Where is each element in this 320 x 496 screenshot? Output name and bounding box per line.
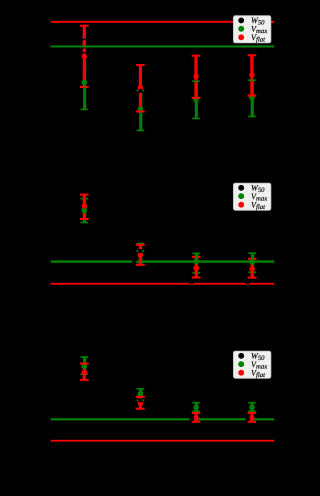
panel3 green marker 4 bbox=[249, 405, 255, 411]
panel3 red top cap over green 1 bbox=[80, 363, 89, 365]
panel1 green top cap over bar 2 bbox=[137, 90, 145, 92]
panel2 red marker 3 bbox=[194, 266, 199, 271]
panel3 green marker 1 bbox=[81, 363, 87, 369]
panel1 red marker 3 bbox=[193, 74, 198, 79]
panel2 black W50 marker 2 bbox=[138, 249, 142, 253]
panel2 green errorbar 4 bbox=[248, 252, 256, 273]
panel1 red bottom cap over green 3 bbox=[192, 97, 201, 99]
panel1 green marker 4 bbox=[249, 95, 255, 101]
panel2 green errorbar 2 bbox=[137, 243, 145, 264]
panel3 red marker 2 bbox=[138, 401, 143, 406]
panel1 red marker 2 bbox=[138, 85, 143, 90]
panel2 green marker 4 bbox=[249, 259, 255, 265]
panel3 black W50 marker 1 bbox=[138, 398, 142, 402]
panel3 black W50 marker 3 bbox=[245, 416, 250, 421]
panel2 green marker 1 bbox=[81, 207, 87, 213]
panel2 red errorbar 2 bbox=[136, 244, 145, 266]
panel3 red errorbar 2 bbox=[136, 396, 145, 410]
panel1 green marker 1 bbox=[81, 80, 87, 86]
panel3 green errorbar 4 bbox=[248, 402, 256, 412]
panel2 black W50 marker 4 bbox=[245, 279, 250, 284]
legend panel1 bbox=[233, 16, 271, 44]
panel1 green marker 2 bbox=[138, 107, 144, 113]
panel2 green bar over red cap 1 bbox=[195, 256, 198, 259]
panel3 red marker 3 bbox=[193, 415, 198, 420]
panel1 red errorbar 1 bbox=[80, 25, 89, 88]
panel3 green marker 2 bbox=[138, 391, 144, 397]
panel1 black W50 cap overlay 2 bbox=[82, 52, 86, 53]
panel3 red marker 4 bbox=[249, 415, 254, 420]
panel1 red errorbar 3 bbox=[192, 55, 201, 99]
legend panel3 bbox=[233, 351, 271, 379]
panel1 green errorbar 4 bbox=[248, 80, 256, 117]
panel1 red errorbar 4 bbox=[248, 54, 257, 96]
panel1 green errorbar 2 bbox=[137, 90, 145, 131]
panel3 red errorbar 3 bbox=[192, 412, 201, 423]
panel2 red marker 4 bbox=[250, 266, 255, 271]
panel2 green errorbar 3 bbox=[192, 253, 200, 274]
panel1 black W50 soft overlay 1 bbox=[83, 47, 86, 49]
panel3 red horizontal line bbox=[51, 440, 275, 442]
panel1 green top cap over bar 4 bbox=[248, 79, 256, 81]
panel1 green errorbar 3 bbox=[192, 81, 200, 119]
panel2 red errorbar 1 bbox=[80, 194, 89, 220]
panel1 red errorbar 2 bbox=[136, 64, 145, 113]
panel2 red marker 1 bbox=[82, 203, 87, 208]
panel1 red marker 4 bbox=[249, 72, 254, 77]
panel3 green horizontal line bbox=[51, 418, 275, 420]
legend panel2 bbox=[233, 183, 271, 211]
panel1 green top cap over bar 3 bbox=[192, 80, 200, 82]
panel1 black W50 cap overlay 1 bbox=[82, 39, 86, 41]
panel3 green errorbar 3 bbox=[192, 402, 200, 412]
panel3 green marker 3 bbox=[193, 405, 199, 411]
panel2 green horizontal line bbox=[51, 260, 275, 263]
panel3 red errorbar 4 bbox=[248, 412, 257, 423]
panel3 black W50 marker 2 bbox=[189, 416, 194, 421]
panel3 green errorbar 1 bbox=[81, 356, 89, 375]
panel1 green marker 3 bbox=[193, 96, 199, 102]
panel3 green errorbar 2 bbox=[137, 388, 145, 401]
panel2 black W50 marker 1 bbox=[132, 259, 137, 264]
panel1 green bar over red cap 1 bbox=[83, 86, 86, 88]
panel1 black W50 marker 1 bbox=[138, 89, 142, 93]
panel2 green marker 2 bbox=[138, 252, 144, 258]
panel3 red top cap over green 2 bbox=[136, 396, 145, 398]
panel1 red bottom cap over green 2 bbox=[136, 111, 145, 113]
panel3 red errorbar 1 bbox=[80, 363, 89, 381]
panel1 red bottom cap over green 4 bbox=[248, 95, 257, 97]
panel2 green marker 3 bbox=[193, 259, 199, 265]
panel1 green horizontal line bbox=[51, 45, 275, 47]
panel2 red marker 2 bbox=[138, 252, 143, 257]
panel3 green bar over red cap 1 bbox=[83, 362, 86, 364]
panel2 red errorbar 3 bbox=[192, 256, 201, 279]
panel2 red horizontal line bbox=[51, 283, 275, 285]
panel2 red errorbar 4 bbox=[248, 258, 257, 279]
panel3 red marker 1 bbox=[82, 370, 87, 375]
panel2 dark green cap 1 bbox=[137, 250, 145, 252]
panel2 green errorbar 1 bbox=[81, 198, 89, 223]
panel1 red horizontal line bbox=[51, 21, 275, 23]
panel1 red marker 1 bbox=[82, 54, 87, 59]
panel2 green bar over red cap 2 bbox=[251, 258, 254, 260]
panel1 green errorbar 1 bbox=[81, 59, 89, 110]
panel2 black W50 marker 3 bbox=[189, 279, 194, 284]
